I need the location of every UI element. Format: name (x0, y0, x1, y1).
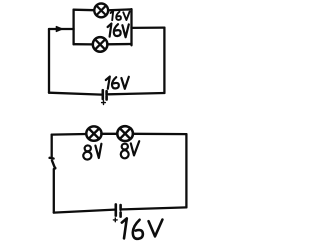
switch S1 (50, 158, 57, 170)
wire parallel box left edge (72, 10, 74, 45)
wire bottom right (series circuit) (122, 207, 186, 209)
wire top branch right segment (108, 8, 131, 11)
wire left vertical lower (series circuit) (53, 169, 55, 213)
label 16V battery B2 (122, 218, 163, 238)
lamp L3 (86, 126, 101, 140)
wire top branch left segment (parallel box) (74, 9, 95, 12)
label 8V lamp L3 (82, 144, 101, 160)
battery B2 (113, 204, 120, 221)
battery B1 (102, 90, 107, 104)
wire left vertical upper (series circuit) (51, 135, 53, 159)
label 16V battery B1 (106, 77, 129, 89)
label 8V lamp L4 (120, 141, 139, 159)
wire middle right return (132, 26, 165, 29)
wire right vertical (top circuit) (163, 28, 165, 93)
lamp L4 (117, 126, 133, 141)
wire top segment 3 (133, 133, 187, 136)
wire top segment 1 (series circuit) (52, 133, 87, 136)
wire top segment 2 (between lamps) (101, 133, 117, 135)
wire bottom branch right segment (107, 43, 131, 46)
wire left vertical (top circuit) (48, 29, 50, 93)
wire bottom left (top circuit) (49, 93, 101, 95)
label 16V lamp L2 (108, 24, 129, 38)
wire bottom right (top circuit) (108, 93, 164, 94)
lamp L2 (bottom branch) (93, 37, 108, 52)
label 16V lamp L1 (111, 11, 130, 20)
wire bottom branch left segment (74, 43, 93, 46)
wire bottom left (series circuit) (54, 210, 115, 213)
wire parallel box right edge (130, 9, 132, 45)
wire right vertical (series circuit) (185, 134, 187, 207)
wire middle left feed (49, 28, 74, 30)
lamp L1 (top branch) (94, 3, 108, 17)
arrow current direction (56, 26, 62, 31)
